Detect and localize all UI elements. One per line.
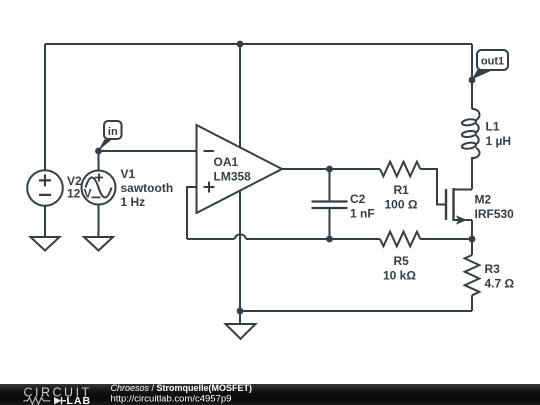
voltage source V1 sawtooth bbox=[82, 171, 116, 205]
capacitor C2 bbox=[312, 169, 348, 239]
wire feedback rail left segment bbox=[187, 238, 235, 240]
node dot ground rail bbox=[237, 308, 244, 315]
svg-text:V1: V1 bbox=[121, 167, 136, 181]
flag out1 bbox=[472, 50, 508, 80]
wire op-amp V- power pin down to ground node bbox=[239, 191, 241, 312]
svg-text:R1: R1 bbox=[394, 183, 410, 197]
wire ground stub below node bbox=[239, 311, 241, 324]
svg-text:M2: M2 bbox=[475, 193, 492, 207]
label OA1 LM358 bbox=[214, 155, 252, 184]
wire bottom ground rail bbox=[240, 310, 472, 312]
footer bar bbox=[0, 384, 540, 405]
svg-text:out1: out1 bbox=[481, 56, 504, 68]
wire node in to op-amp inverting input bbox=[99, 150, 197, 152]
transistor M2 bbox=[446, 188, 472, 225]
svg-text:R3: R3 bbox=[485, 262, 501, 276]
wire feedback rail middle segment bbox=[246, 238, 380, 240]
wire op-amp non-inverting input stub bbox=[187, 187, 197, 239]
ground under V2 bbox=[31, 237, 60, 251]
label R3 4.7 Ω bbox=[485, 262, 515, 291]
label V2 12 V bbox=[67, 174, 92, 201]
svg-text:R5: R5 bbox=[394, 254, 410, 268]
op-amp OA1 bbox=[197, 125, 283, 213]
svg-text:http://circuitlab.com/c4957p9: http://circuitlab.com/c4957p9 bbox=[111, 394, 232, 405]
label M2 IRF530 bbox=[475, 193, 515, 222]
wire hop over vertical wire bbox=[235, 234, 246, 239]
ground under V1 bbox=[84, 237, 113, 251]
resistor R1 bbox=[380, 162, 420, 177]
svg-text:L1: L1 bbox=[486, 120, 500, 134]
resistor R5 bbox=[380, 232, 420, 247]
svg-text:100 Ω: 100 Ω bbox=[385, 198, 418, 212]
wire V2 top lead bbox=[44, 44, 46, 171]
CircuitLab logo bbox=[24, 386, 92, 405]
label C2 1 nF bbox=[350, 192, 375, 221]
svg-text:C2: C2 bbox=[350, 192, 366, 206]
svg-text:LAB: LAB bbox=[67, 395, 92, 405]
svg-text:1 Hz: 1 Hz bbox=[121, 195, 146, 209]
resistor R3 bbox=[465, 255, 480, 295]
wire R3 top lead bbox=[471, 239, 473, 255]
wire R1 to MOSFET gate bbox=[420, 169, 446, 205]
wire op-amp V+ power pin bbox=[239, 44, 241, 148]
node dot at top rail junction bbox=[237, 41, 244, 48]
wire V1 bottom lead bbox=[98, 205, 100, 238]
inductor L1 bbox=[462, 109, 480, 158]
label V1 sawtooth 1 Hz bbox=[121, 167, 174, 209]
wire MOSFET source down to feedback rail bbox=[471, 220, 473, 239]
wire V2 bottom lead bbox=[44, 206, 46, 238]
wire L1 to MOSFET drain bbox=[471, 157, 473, 190]
node dot C2 top bbox=[326, 166, 333, 173]
label R5 10 kΩ bbox=[383, 254, 416, 283]
svg-text:4.7 Ω: 4.7 Ω bbox=[485, 277, 515, 291]
label R1 100 Ω bbox=[385, 183, 418, 212]
footer title text bbox=[111, 383, 253, 405]
svg-text:OA1: OA1 bbox=[214, 155, 239, 169]
wire right column top, out1 to L1 bbox=[471, 44, 473, 109]
ground main bbox=[226, 324, 256, 339]
svg-text:LM358: LM358 bbox=[214, 170, 252, 184]
wire op-amp output rail bbox=[282, 168, 380, 170]
node dot C2 bottom bbox=[326, 236, 333, 243]
node dot at in bbox=[95, 148, 102, 155]
node dot source R3 junction bbox=[469, 236, 476, 243]
svg-text:1 nF: 1 nF bbox=[350, 207, 375, 221]
svg-text:sawtooth: sawtooth bbox=[121, 181, 174, 195]
wire feedback rail right segment bbox=[420, 238, 472, 240]
wire R3 bottom lead bbox=[471, 295, 473, 311]
svg-text:10 kΩ: 10 kΩ bbox=[383, 269, 416, 283]
svg-text:12 V: 12 V bbox=[67, 187, 92, 201]
wire top rail from V2 to right column bbox=[45, 43, 472, 45]
label L1 1 µH bbox=[486, 120, 512, 149]
flag in bbox=[98, 121, 121, 151]
svg-text:in: in bbox=[108, 126, 118, 138]
wire V1 top lead bbox=[98, 151, 100, 171]
voltage source V2 bbox=[27, 170, 63, 206]
svg-text:Chroesos / Stromquelle(MOSFET): Chroesos / Stromquelle(MOSFET) bbox=[111, 383, 253, 393]
svg-text:1 µH: 1 µH bbox=[486, 134, 512, 148]
svg-text:IRF530: IRF530 bbox=[475, 207, 515, 221]
node dot out1 bbox=[469, 77, 476, 84]
